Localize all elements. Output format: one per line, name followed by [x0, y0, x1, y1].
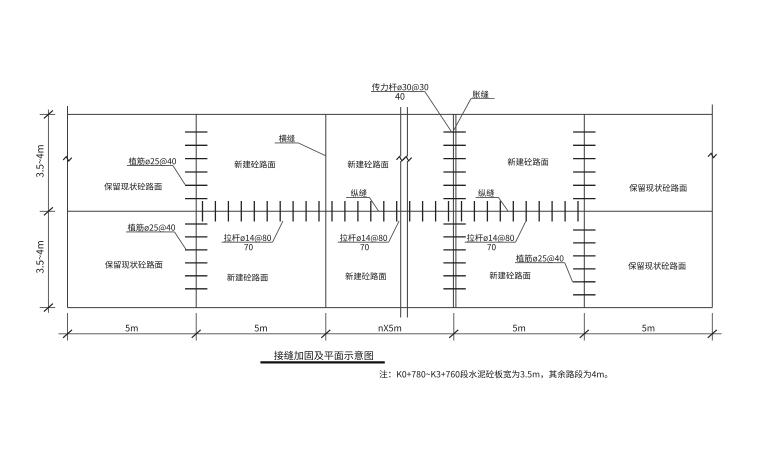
- area label new pavement bottom cell3: [345, 272, 386, 280]
- area label new pavement bottom cell2: [227, 274, 268, 282]
- label planted rebar bottom-right with leader: [515, 254, 584, 281]
- label longitudinal joint right with leader: [476, 189, 508, 211]
- label planted rebar bottom-left with leader: [126, 224, 186, 250]
- rebar ticks bottom of expansion joint: [443, 224, 465, 289]
- dimension text 5m section2: [255, 325, 267, 332]
- area label existing pavement top-right: [629, 184, 686, 192]
- rebar ticks top of expansion joint: [443, 132, 465, 199]
- area label existing pavement top-left: [104, 183, 161, 191]
- bottom dimension tick slashes: [63, 330, 717, 338]
- left dimension extension lines: [40, 114, 56, 307]
- note text: [379, 370, 607, 378]
- rebar ticks top of right joint: [573, 132, 595, 199]
- break line pair (nX5m section): [401, 107, 408, 318]
- joint line between new and existing pavement (right): [583, 114, 585, 307]
- road centerline longitudinal joint: [68, 210, 713, 212]
- label dowel bar spec with leader: [371, 83, 452, 133]
- dimension text nX5m section3: [379, 325, 401, 332]
- break mark on right edge: [708, 153, 717, 157]
- label longitudinal joint left with leader: [346, 189, 378, 211]
- dowel ticks top of left joint: [185, 132, 207, 199]
- drawing title: [274, 351, 373, 360]
- area label existing pavement bottom-left: [105, 261, 162, 269]
- dowel ticks bottom of left joint: [185, 224, 207, 289]
- label expansion joint with leader: [454, 90, 495, 130]
- joint line between existing and new pavement (left): [195, 114, 197, 307]
- pavement slab outline top edge: [68, 113, 713, 115]
- tie-bar ticks along centerline: [203, 201, 579, 222]
- label tie bar cell4 with leader: [465, 221, 526, 250]
- right pavement edge: [711, 105, 713, 308]
- label tie bar cell2 with leader: [222, 221, 283, 250]
- area label new pavement top cell2: [235, 160, 276, 168]
- label transverse joint with leader: [275, 135, 326, 156]
- area label new pavement bottom cell4: [490, 272, 531, 280]
- rebar ticks bottom of right joint: [573, 230, 595, 295]
- left pavement edge: [67, 106, 69, 308]
- area label existing pavement bottom-right: [628, 262, 685, 270]
- left dimension tick slashes: [44, 110, 53, 311]
- area label new pavement top cell4: [508, 158, 549, 166]
- area label new pavement top cell3: [348, 160, 389, 168]
- transverse joint line: [325, 114, 327, 307]
- left dimension line: [47, 110, 49, 313]
- dimension text 5m section1: [125, 325, 137, 332]
- bottom dimension extension lines: [68, 313, 713, 341]
- expansion joint double line: [453, 114, 456, 307]
- dimension text 5m section5: [642, 325, 654, 332]
- break mark on left edge: [63, 157, 72, 161]
- label planted rebar top-left with leader: [127, 157, 185, 184]
- label tie bar cell3 with leader: [338, 221, 399, 250]
- dimension text 3.5~4m lower (rotated): [36, 241, 43, 273]
- title underline: [260, 361, 384, 363]
- break zigzag marks: [396, 157, 411, 161]
- dimension text 5m section4: [513, 325, 525, 332]
- pavement slab outline bottom edge: [68, 307, 713, 309]
- bottom dimension line: [59, 333, 722, 335]
- dimension text 3.5~4m upper (rotated): [36, 145, 43, 177]
